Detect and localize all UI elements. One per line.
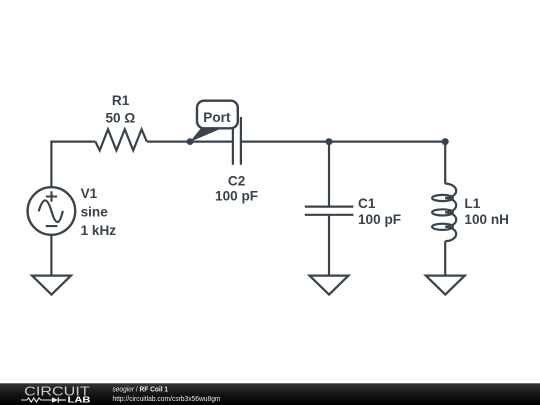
svg-text:LAB: LAB [68, 395, 91, 405]
wire C1 branch bottom [328, 215, 330, 276]
svg-text:L1: L1 [464, 196, 480, 211]
junction node C1 [326, 138, 333, 145]
port flag pointer [190, 127, 224, 141]
svg-text:C1: C1 [358, 196, 376, 211]
wire L1 bottom lead [444, 241, 446, 275]
port flag box [197, 101, 238, 129]
wire C1 branch top [328, 142, 330, 207]
svg-text:100 pF: 100 pF [358, 212, 401, 227]
svg-text:Port: Port [203, 110, 231, 125]
resistor R1 [95, 129, 146, 150]
ground below L1 [426, 276, 465, 295]
wire V1 bottom lead [50, 235, 52, 276]
junction dot port probe [187, 138, 194, 145]
svg-text:C2: C2 [228, 174, 246, 189]
inductor L1 [445, 184, 456, 198]
wire L1 top lead [444, 142, 446, 184]
svg-text:sine: sine [81, 205, 109, 220]
footer bar [0, 383, 540, 405]
capacitor C2 [233, 117, 241, 165]
svg-text:50 Ω: 50 Ω [106, 110, 136, 125]
capacitor C1 [305, 207, 354, 215]
wire R1 to C2 [147, 141, 233, 143]
ground below C1 [310, 276, 349, 295]
logo diode [52, 397, 58, 403]
svg-text:seogier / RF Coil 1: seogier / RF Coil 1 [113, 386, 169, 393]
svg-text:100 nH: 100 nH [464, 212, 509, 227]
voltage source V1 [28, 187, 76, 235]
junction node L1 [442, 138, 449, 145]
wire V1 top lead and corner to R1 [51, 142, 95, 187]
svg-text:V1: V1 [81, 186, 98, 201]
svg-text:http://circuitlab.com/csrb3x56: http://circuitlab.com/csrb3x56wu8gm [113, 396, 221, 403]
ground below V1 [32, 276, 71, 295]
svg-text:100 pF: 100 pF [215, 189, 258, 204]
logo resistor squiggle [21, 398, 52, 402]
svg-text:1 kHz: 1 kHz [81, 223, 117, 238]
wire C2 to node B [241, 141, 445, 143]
svg-text:R1: R1 [112, 93, 130, 108]
